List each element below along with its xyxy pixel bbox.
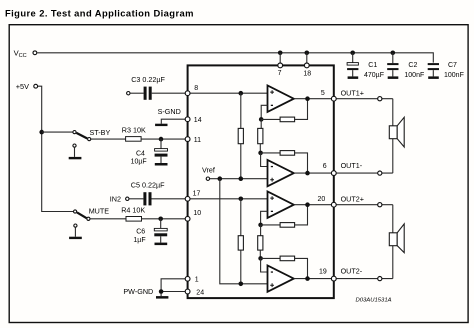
node VCC: [14, 48, 37, 59]
capacitor C2: [387, 53, 398, 77]
switch ST-BY: [73, 128, 111, 141]
wire R4 to pin 10: [142, 218, 187, 220]
resistor bias ch1: [238, 93, 243, 179]
op-amp A1: [268, 86, 294, 112]
wire IN1 to C3: [130, 92, 143, 94]
svg-text:S-GND: S-GND: [158, 107, 181, 116]
wire OUT2+: [334, 204, 393, 206]
resistor fb chain ch2: [258, 225, 263, 259]
junction A4 fb node: [258, 256, 263, 261]
resistor A3 feedback: [261, 205, 308, 228]
wire pin17 input row: [188, 198, 268, 200]
svg-text:C3 0.22µF: C3 0.22µF: [131, 75, 165, 84]
junction A3 output: [305, 202, 310, 207]
junction A3 fb node: [258, 223, 263, 228]
wire A2 inverting jog: [261, 153, 268, 167]
pin 8: [185, 91, 190, 96]
svg-text:C2: C2: [408, 62, 417, 69]
svg-text:OUT2-: OUT2-: [341, 267, 363, 276]
pin 19: [331, 276, 336, 281]
resistor bias ch2: [238, 199, 243, 284]
wire Vref extension down: [220, 179, 268, 284]
svg-text:R4 10K: R4 10K: [121, 205, 145, 214]
wire OUT2-: [334, 278, 393, 280]
wire R3 to pin 11: [141, 138, 186, 140]
speaker LS1: [389, 117, 404, 147]
wire +5V feed: [38, 86, 73, 211]
wire pin14 to ground: [161, 119, 185, 124]
junction A1 fb node: [259, 117, 264, 122]
resistor fb chain ch1: [258, 119, 263, 152]
svg-text:MUTE: MUTE: [89, 207, 110, 216]
wire A2 output: [294, 172, 334, 174]
junction +5V/ST-BY: [39, 130, 44, 135]
pin 24: [185, 289, 190, 294]
junction rail/C1: [350, 51, 355, 56]
junction Vref/bias ch1: [239, 176, 244, 181]
junction rail/C2: [391, 51, 396, 56]
svg-text:C5 0.22µF: C5 0.22µF: [131, 181, 165, 190]
wire C5 to pin 17: [152, 198, 187, 200]
capacitor C3: [131, 75, 165, 100]
svg-text:D03AU1531A: D03AU1531A: [356, 297, 392, 303]
terminal OUT2-: [378, 277, 382, 281]
pin 6: [331, 171, 336, 176]
junction R3/C4: [159, 137, 164, 142]
ground ST-BY throw: [69, 144, 82, 159]
resistor A2 feedback: [261, 151, 308, 174]
wire pin1/pin24 to ground: [161, 279, 186, 296]
junction A2 output: [305, 171, 310, 176]
pin 10: [185, 216, 190, 221]
pin 5: [331, 96, 336, 101]
wire OUT1-: [334, 172, 393, 174]
value label C1 470uF: [364, 62, 384, 79]
svg-text:11: 11: [194, 137, 201, 144]
junction pin17/bias R: [239, 197, 244, 202]
wire pin18 stub: [306, 53, 308, 64]
wire C3 to pin 8: [152, 92, 186, 94]
capacitor C1: [347, 53, 358, 77]
wire A4 output: [294, 278, 334, 280]
wire switch to R3: [91, 138, 126, 140]
wire speaker2 drop: [392, 205, 394, 279]
value label C2 100nF: [404, 62, 424, 79]
svg-text:CC: CC: [19, 53, 27, 59]
junction Vref ext/bias ch2: [239, 282, 244, 287]
svg-text:100nF: 100nF: [444, 72, 464, 79]
svg-text:1: 1: [195, 277, 199, 284]
svg-text:+5V: +5V: [16, 82, 29, 91]
op-amp A4: [268, 265, 294, 291]
wire A3 inverting jog: [261, 211, 268, 225]
node IN1: [127, 92, 130, 95]
wire pin8 input row: [188, 92, 268, 94]
node IN2: [110, 194, 129, 203]
svg-text:Vref: Vref: [202, 166, 215, 175]
wire Vcc rail: [37, 53, 433, 63]
junction A2 fb node: [258, 151, 263, 156]
terminal OUT1-: [378, 171, 382, 175]
pin 20: [331, 202, 336, 207]
junction rail/pin18: [305, 51, 310, 56]
svg-text:1µF: 1µF: [133, 237, 145, 244]
svg-text:C7: C7: [448, 62, 457, 69]
svg-text:17: 17: [193, 191, 201, 198]
svg-text:20: 20: [318, 196, 326, 203]
capacitor C4: [155, 139, 168, 163]
svg-text:10: 10: [193, 210, 201, 217]
op-amp A2: [268, 160, 294, 186]
ground MUTE throw: [69, 224, 82, 239]
ground C2: [388, 76, 399, 79]
ground C1: [348, 76, 359, 79]
junction pin8/bias R: [239, 91, 244, 96]
svg-text:10µF: 10µF: [131, 158, 147, 165]
wire IN2 to C5: [129, 198, 143, 200]
capacitor C6: [154, 219, 167, 243]
pin 1: [185, 276, 190, 281]
svg-text:7: 7: [278, 70, 282, 77]
wire A4 inverting jog: [261, 258, 268, 272]
svg-text:R3 10K: R3 10K: [122, 126, 146, 135]
svg-text:24: 24: [196, 289, 204, 296]
resistor A4 feedback: [261, 256, 308, 279]
svg-text:470µF: 470µF: [364, 72, 384, 79]
pin 14: [185, 117, 190, 122]
svg-text:OUT2+: OUT2+: [341, 194, 364, 203]
svg-text:6: 6: [323, 163, 327, 170]
node Vref: [202, 166, 215, 181]
node +5V: [16, 82, 38, 91]
terminal OUT1+: [378, 97, 382, 101]
svg-text:8: 8: [194, 85, 198, 92]
junction rail/pin7: [278, 51, 283, 56]
junction PW-GND: [159, 289, 164, 294]
wire to ST-BY switch: [42, 131, 73, 133]
wire switch to R4: [90, 218, 126, 220]
junction A1 output: [305, 96, 310, 101]
svg-text:C6: C6: [136, 229, 145, 236]
capacitor C7: [428, 63, 439, 76]
svg-text:5: 5: [321, 90, 325, 97]
value label C6 1uF: [133, 229, 145, 245]
ground S-GND: [155, 124, 167, 126]
wire A1 inverting jog: [261, 105, 267, 119]
svg-text:C4: C4: [136, 151, 145, 158]
op-amp A3: [268, 192, 294, 218]
terminal OUT2+: [378, 203, 382, 207]
wire Vref row: [210, 178, 268, 180]
svg-text:18: 18: [303, 70, 311, 77]
svg-text:OUT1-: OUT1-: [341, 161, 363, 170]
resistor A1 feedback: [261, 99, 307, 122]
svg-text:19: 19: [319, 269, 327, 276]
speaker LS2: [389, 224, 404, 253]
node S-GND: [158, 107, 181, 116]
junction R4/C6: [158, 217, 163, 222]
junction A4 output: [305, 276, 310, 281]
ground C4: [155, 163, 168, 166]
value label C7 100nF: [444, 62, 464, 79]
wire OUT1+: [334, 98, 393, 100]
value label C4 10uF: [131, 151, 147, 166]
svg-text:OUT1+: OUT1+: [341, 88, 364, 97]
capacitor C5: [131, 181, 165, 206]
pin 18: [304, 63, 309, 68]
wire speaker1 drop: [392, 99, 394, 173]
pin 11: [185, 137, 190, 142]
svg-text:ST-BY: ST-BY: [90, 128, 111, 137]
pin 7: [278, 63, 283, 68]
wire A1 output: [294, 98, 334, 100]
junction Vref/ext: [218, 176, 223, 181]
wire pin7 stub: [279, 53, 281, 64]
svg-text:IN2: IN2: [110, 194, 121, 203]
wire A3 output: [294, 204, 334, 206]
svg-text:Figure 2. Test and Application: Figure 2. Test and Application Diagram: [5, 8, 194, 19]
ground PW-GND: [156, 296, 168, 299]
node PW-GND: [123, 287, 153, 296]
svg-text:100nF: 100nF: [404, 72, 424, 79]
ground C7: [428, 76, 439, 79]
pin 17: [185, 196, 190, 201]
svg-text:C1: C1: [368, 62, 377, 69]
svg-text:14: 14: [194, 117, 202, 124]
svg-text:PW-GND: PW-GND: [123, 287, 153, 296]
resistor R3 10K: [122, 126, 146, 142]
ground C6: [155, 243, 168, 246]
IC block U1: [188, 65, 334, 298]
switch MUTE: [74, 207, 110, 221]
resistor R4 10K: [121, 205, 145, 221]
